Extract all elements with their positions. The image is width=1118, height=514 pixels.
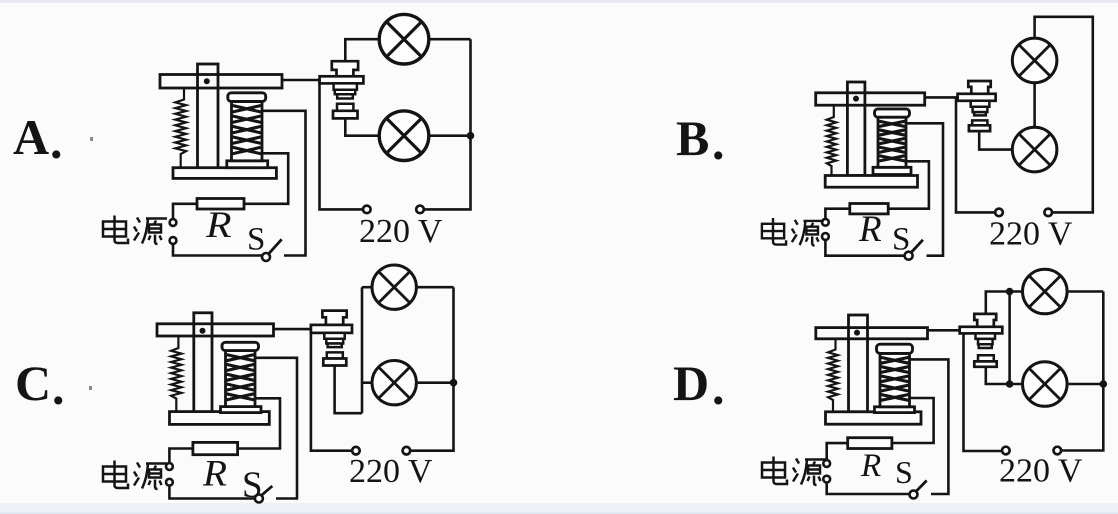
svg-text:S: S (895, 454, 913, 490)
lamp A-L1 (379, 14, 429, 64)
control A: wire terminal 2 to switch (173, 244, 262, 256)
relay C: iron-core base plate (170, 412, 270, 425)
relay B: pivot dot (853, 96, 859, 102)
control B: battery terminal 1 (822, 219, 829, 226)
wire C: right bus down to 220V (410, 287, 454, 451)
junction A: lamps right node (467, 132, 475, 140)
option A small print artifact (90, 137, 93, 141)
control C: wire resistor to terminal 1 (169, 449, 193, 464)
wire D: lamp L2 to right bus (1069, 383, 1104, 386)
relay D: coil body (880, 353, 910, 406)
terminal A: 220V right (416, 206, 424, 214)
terminal D: 220V right (1054, 447, 1062, 455)
terminal B: 220V left (995, 209, 1003, 217)
wire A: top contact to lamp L1 (345, 39, 378, 62)
svg-text:R: R (860, 448, 881, 484)
contact C: bottom fixed contact (327, 352, 343, 358)
relay A: coil bottom flange (227, 161, 268, 168)
contact D: armature contact bar (960, 327, 1003, 334)
contact D: top fixed contact (974, 314, 996, 327)
contact B: top fixed contact (968, 81, 990, 94)
option C small print artifact (89, 386, 92, 390)
control D: battery terminal 1 (823, 460, 830, 467)
junction D: lamps right node (1100, 380, 1108, 388)
relay C: wire coil lead 2 to resistor (238, 398, 280, 448)
svg-text:.: . (52, 359, 65, 415)
control D: battery terminal 2 (823, 476, 830, 483)
relay C: spring (171, 336, 181, 412)
relay C: coil top flange (222, 342, 259, 350)
relay A: armature bar (160, 75, 282, 89)
relay D: iron-core base plate (826, 412, 922, 424)
control C: wire terminal 2 to switch (169, 486, 255, 499)
relay B: coil windings (879, 121, 905, 161)
wire A: bottom contact to lamp L2 (345, 117, 378, 136)
relay A: pivot post (198, 64, 219, 168)
wire B: lamp L1 top to right bus (1035, 17, 1093, 213)
control A: battery terminal 1 (170, 219, 177, 226)
control C: switch S pivot (255, 495, 263, 503)
contact A: top fixed contact (332, 61, 358, 76)
relay B: spring (827, 105, 836, 175)
svg-text:.: . (50, 113, 63, 169)
control A: wire resistor to terminal 1 (173, 204, 197, 219)
control A: resistor R body (197, 199, 244, 210)
contact B: bottom fixed contact (972, 120, 987, 125)
lamp A-L2 (379, 111, 429, 161)
svg-text:.: . (712, 359, 725, 415)
relay D: wire coil lead 2 to resistor (892, 398, 934, 443)
relay C: armature bar (157, 324, 274, 336)
lamp B-L2 (1012, 127, 1057, 172)
contact D: moving contact stack (976, 333, 996, 339)
relay C: wire coil lead 1 to switch (255, 358, 297, 499)
relay C: pivot dot (200, 328, 206, 334)
lamp C-L2 (372, 361, 416, 405)
wire C: lamp L1 to right bus (416, 286, 454, 289)
relay C: pivot post (194, 313, 212, 413)
wire C: lamps left bus (361, 287, 364, 413)
control D: label 电源 (power supply) (762, 457, 826, 486)
control C: resistor R body (193, 442, 238, 454)
wire C: left bus to lamp L2 (362, 381, 371, 384)
control B: switch S pivot (905, 252, 913, 260)
svg-text:S: S (242, 465, 263, 506)
wire A: armature to contact bar (282, 79, 321, 82)
relay D: spring (828, 339, 838, 412)
wire D: lamp L1 to right bus (1069, 290, 1104, 293)
relay A: coil windings (233, 106, 262, 154)
control C: battery terminal 2 (166, 479, 173, 486)
wire A: lamp L1 to right bus (428, 38, 471, 41)
wire A: lamp L2 to right bus (428, 134, 471, 137)
svg-text:220 V: 220 V (989, 216, 1073, 253)
control D: resistor R body (848, 438, 892, 449)
contact A: moving contact stack (334, 83, 357, 89)
relay B: armature bar (816, 93, 925, 105)
control B: resistor R body (850, 204, 888, 214)
wire B: series link between lamps (1033, 83, 1036, 128)
lamp D-L2 (1023, 362, 1068, 407)
contact C: top fixed contact (322, 311, 346, 325)
contact A: bottom fixed contact (337, 104, 353, 111)
control A: switch S blade (269, 239, 282, 254)
terminal C: 220V left (352, 447, 360, 455)
relay B: coil body (878, 117, 906, 167)
junction C: lamps right node (450, 379, 458, 387)
relay A: pivot dot (204, 78, 210, 84)
relay A: wire coil lead 1 to switch (262, 111, 306, 256)
contact B: moving contact stack (971, 101, 990, 107)
relay A: coil top flange (228, 93, 266, 102)
terminal B: 220V right (1044, 209, 1052, 217)
lamp B-L1 (1012, 38, 1057, 83)
wire C: armature to contact bar (273, 328, 312, 331)
terminal D: 220V left (1002, 447, 1010, 455)
relay B: pivot post (847, 82, 865, 176)
relay B: iron-core base plate (825, 176, 917, 188)
svg-text:220 V: 220 V (349, 453, 433, 490)
relay D: pivot post (849, 315, 868, 412)
relay D: wire coil lead 1 to switch (910, 359, 949, 494)
top edge tint band (0, 0, 1118, 3)
relay C: coil windings (227, 355, 255, 400)
svg-text:C: C (15, 355, 51, 411)
control B: wire terminal 2 to switch (825, 240, 904, 256)
lamp C-L1 (372, 265, 416, 309)
contact C: moving contact stack (324, 333, 344, 339)
relay B: coil top flange (875, 109, 910, 117)
relay D: coil windings (881, 357, 909, 400)
wire D: right bus down to 220V (1061, 292, 1103, 451)
relay A: spring (175, 88, 186, 168)
wire B: bottom contact to lamp L2 (979, 130, 1012, 150)
svg-text:S: S (892, 221, 910, 257)
relay B: wire coil lead 2 to resistor (888, 161, 929, 208)
wire D: armature to contact bar (928, 329, 962, 332)
contact A: armature contact bar (320, 76, 364, 83)
bottom edge tint band (0, 503, 1118, 514)
svg-text:R: R (858, 209, 882, 250)
control C: battery terminal 1 (166, 463, 173, 470)
relay B: wire coil lead 1 to switch (906, 123, 943, 255)
wire D: top contact to lamps left node (986, 292, 1022, 316)
wire D: 220V left lead up to armature (964, 330, 1003, 451)
wire C: left bus to lamp L1 (362, 286, 371, 289)
terminal C: 220V right (403, 447, 411, 455)
control B: label 电源 (power supply) (762, 218, 824, 246)
control A: switch S pivot (262, 253, 270, 261)
control D: wire terminal 2 to switch (827, 483, 910, 495)
control C: switch S blade (262, 486, 273, 495)
wire C: 220V left lead up to armature (311, 329, 352, 451)
control D: switch S blade (916, 481, 927, 492)
control C: label 电源 (power supply) (103, 461, 167, 490)
control D: switch S pivot (910, 491, 918, 499)
svg-text:S: S (247, 222, 265, 258)
contact B: armature contact bar (958, 94, 996, 101)
control A: label 电源 (power supply) (103, 216, 167, 245)
relay A: iron-core base plate (173, 168, 276, 179)
svg-text:R: R (202, 454, 227, 495)
wire C: bottom contact to lamps left bus (335, 364, 362, 413)
wire A: 220V left lead up to armature (320, 80, 364, 209)
relay C: coil bottom flange (221, 407, 262, 413)
wire D: bottom contact to lamps left node (986, 366, 1022, 385)
relay D: armature bar (816, 328, 928, 339)
contact D: bottom fixed contact (978, 355, 994, 361)
svg-text:R: R (205, 205, 232, 246)
relay A: wire coil lead 2 to resistor (244, 153, 288, 204)
control B: battery terminal 2 (822, 233, 829, 240)
svg-text:.: . (712, 114, 725, 170)
control B: wire resistor to terminal 1 (825, 209, 849, 219)
control A: battery terminal 2 (170, 237, 177, 244)
relay A: coil body (232, 102, 263, 161)
svg-text:220 V: 220 V (999, 453, 1083, 490)
relay D: coil bottom flange (875, 407, 915, 413)
lamp D-L1 (1023, 269, 1068, 314)
relay D: coil top flange (877, 344, 913, 353)
wire C: lamp L2 to right bus (416, 381, 454, 384)
junction D: left node bottom (1006, 380, 1014, 388)
relay B: coil bottom flange (873, 167, 911, 174)
svg-text:220 V: 220 V (359, 213, 443, 250)
terminal A: 220V left (363, 206, 371, 214)
wire B: armature to contact bar (925, 96, 959, 99)
svg-text:B: B (676, 110, 709, 166)
wire D: lamps left link (1008, 292, 1011, 385)
wire A: right bus down to 220V (424, 39, 471, 209)
svg-text:A: A (13, 109, 49, 165)
svg-text:D: D (673, 355, 709, 411)
junction D: left node top (1006, 288, 1014, 296)
control D: wire resistor to terminal 1 (827, 443, 848, 460)
bottom edge line (0, 513, 1118, 514)
control B: switch S blade (911, 240, 923, 253)
relay C: coil body (226, 351, 256, 407)
contact C: armature contact bar (311, 325, 352, 333)
wire B: 220V left lead up to armature (956, 97, 995, 212)
relay D: pivot dot (854, 330, 860, 336)
